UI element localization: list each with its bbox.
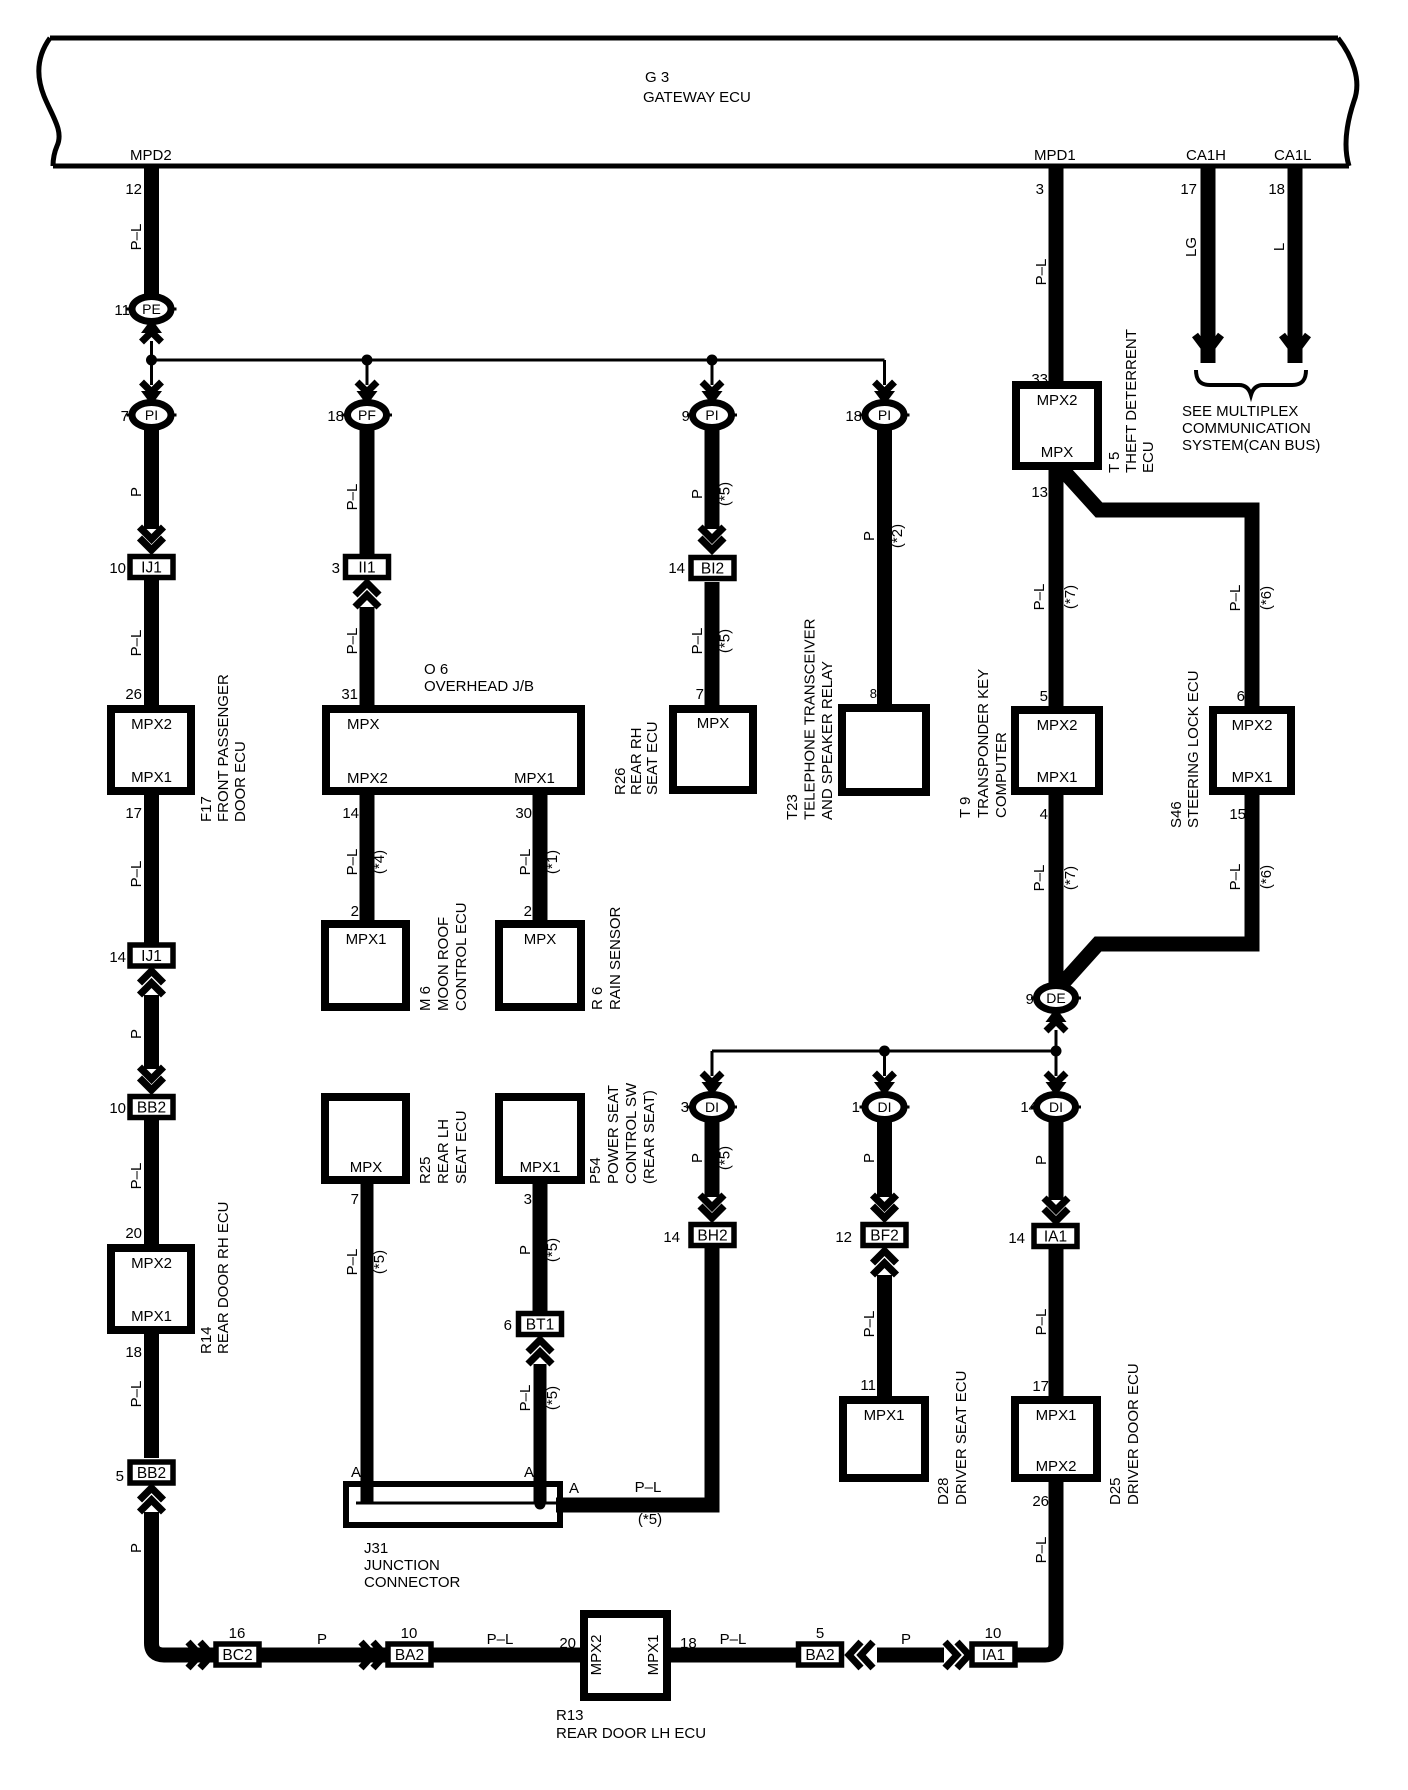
- svg-text:26: 26: [1032, 1493, 1049, 1510]
- svg-text:BC2: BC2: [222, 1647, 252, 1664]
- svg-text:T 9: T 9: [957, 797, 974, 818]
- svg-text:MPX1: MPX1: [1036, 1407, 1077, 1424]
- svg-text:PI: PI: [705, 407, 718, 423]
- wire BT1 inside J31: [534, 1484, 547, 1503]
- wire II1 to O6: [360, 607, 375, 705]
- svg-text:4: 4: [1040, 806, 1048, 823]
- svg-text:10: 10: [985, 1625, 1002, 1642]
- label D25 driver door ECU: [1107, 1363, 1142, 1505]
- arrow into PI 9: [702, 382, 723, 405]
- svg-text:S46: S46: [1168, 801, 1185, 828]
- wire BI2 to R26: [705, 582, 720, 705]
- wire PF to II1: [360, 427, 375, 555]
- svg-text:REAR LH: REAR LH: [435, 1119, 452, 1184]
- wire PI to IJ1: [144, 427, 159, 529]
- svg-text:12: 12: [835, 1229, 852, 1246]
- wire drop to PF: [366, 360, 369, 385]
- svg-text:12: 12: [125, 181, 142, 198]
- junction connector BC2: [216, 1644, 259, 1665]
- label T5 theft deterrent ECU: [1106, 329, 1157, 473]
- wire R25 to J31: [361, 1184, 374, 1503]
- junction connector BI2: [691, 558, 734, 579]
- svg-text:14: 14: [109, 949, 126, 966]
- label S46 steering lock ECU: [1168, 670, 1202, 828]
- svg-text:P–L: P–L: [635, 1479, 662, 1496]
- svg-text:MPX2: MPX2: [131, 1255, 172, 1272]
- svg-text:MPX: MPX: [524, 931, 557, 948]
- svg-text:16: 16: [229, 1625, 246, 1642]
- svg-text:BH2: BH2: [697, 1228, 727, 1245]
- svg-text:P–L: P–L: [861, 1311, 878, 1338]
- svg-text:A: A: [569, 1480, 579, 1497]
- label P54 power seat control sw: [587, 1082, 658, 1184]
- svg-text:JUNCTION: JUNCTION: [364, 1557, 440, 1574]
- label R6 rain sensor: [589, 906, 624, 1010]
- J31 internal bus: [356, 1502, 557, 1505]
- svg-text:MPX1: MPX1: [1037, 769, 1078, 786]
- junction connector BA2: [388, 1644, 431, 1665]
- svg-text:REAR DOOR LH ECU: REAR DOOR LH ECU: [556, 1725, 706, 1742]
- svg-text:(*5): (*5): [717, 1146, 734, 1170]
- arrow into PI 18: [874, 382, 895, 405]
- svg-text:18: 18: [327, 408, 344, 425]
- svg-text:P–L: P–L: [517, 849, 534, 876]
- node J31 junction: [535, 1499, 546, 1510]
- svg-text:30: 30: [515, 805, 532, 822]
- connector PI 18: [860, 403, 910, 428]
- arrow into DI 1: [874, 1073, 895, 1096]
- svg-text:14: 14: [663, 1229, 680, 1246]
- svg-text:P–L: P–L: [1227, 864, 1244, 891]
- svg-text:7: 7: [696, 686, 704, 703]
- svg-text:II1: II1: [358, 560, 375, 577]
- svg-text:(*5): (*5): [544, 1238, 561, 1262]
- svg-text:P–L: P–L: [344, 849, 361, 876]
- svg-text:REAR RH: REAR RH: [628, 727, 645, 795]
- arrow into IJ1: [140, 527, 164, 550]
- svg-text:ECU: ECU: [1140, 441, 1157, 473]
- svg-text:SEAT ECU: SEAT ECU: [644, 721, 661, 795]
- wire BA2 to R13: [433, 1648, 584, 1663]
- svg-text:P–L: P–L: [128, 630, 145, 657]
- svg-text:FRONT PASSENGER: FRONT PASSENGER: [215, 674, 232, 822]
- svg-text:18: 18: [845, 408, 862, 425]
- wire BF2 to D28: [877, 1275, 892, 1396]
- svg-text:P–L: P–L: [1033, 1537, 1050, 1564]
- connector DI 14: [1031, 1095, 1081, 1120]
- svg-text:6: 6: [1237, 688, 1245, 705]
- svg-text:20: 20: [125, 1225, 142, 1242]
- wire drop to PI 9: [711, 360, 714, 385]
- wire drop to PI 7: [150, 360, 153, 385]
- connector DI 1: [860, 1095, 910, 1120]
- arrow into PF: [357, 382, 378, 405]
- svg-text:BA2: BA2: [805, 1647, 834, 1664]
- arrow up into BF2: [873, 1251, 897, 1275]
- connector DE: [1031, 986, 1081, 1011]
- junction connector BA2 right: [799, 1644, 842, 1665]
- wire drop to DI 1: [883, 1051, 886, 1076]
- junction connector II1: [346, 557, 389, 578]
- svg-text:COMPUTER: COMPUTER: [993, 732, 1010, 818]
- svg-text:CONTROL ECU: CONTROL ECU: [453, 902, 470, 1011]
- connector PI 9: [687, 403, 737, 428]
- wire IA1 to corner: [1016, 1648, 1045, 1663]
- svg-text:LG: LG: [1183, 237, 1200, 257]
- svg-text:P: P: [689, 489, 706, 499]
- svg-text:RAIN SENSOR: RAIN SENSOR: [607, 906, 624, 1010]
- svg-text:P: P: [128, 1029, 145, 1039]
- svg-text:A: A: [524, 1464, 534, 1481]
- svg-text:(*5): (*5): [638, 1511, 662, 1528]
- svg-text:7: 7: [351, 1191, 359, 1208]
- svg-text:P54: P54: [587, 1157, 604, 1184]
- svg-text:CONTROL SW: CONTROL SW: [623, 1082, 640, 1184]
- svg-text:IJ1: IJ1: [141, 948, 162, 965]
- svg-text:P–L: P–L: [720, 1631, 747, 1648]
- arrow into BI2: [700, 527, 724, 550]
- svg-text:(*4): (*4): [371, 850, 388, 874]
- svg-text:IJ1: IJ1: [141, 560, 162, 577]
- svg-text:(*5): (*5): [544, 1386, 561, 1410]
- rear RH seat ECU R26: [673, 709, 753, 790]
- svg-text:P–L: P–L: [1227, 585, 1244, 612]
- svg-text:P–L: P–L: [1033, 259, 1050, 286]
- svg-text:P–L: P–L: [1031, 584, 1048, 611]
- wire DI to BH2: [705, 1119, 720, 1197]
- junction connector BH2: [691, 1225, 734, 1246]
- svg-text:MPD2: MPD2: [130, 147, 172, 164]
- overhead J/B O6: [326, 709, 581, 791]
- svg-text:MPX1: MPX1: [520, 1159, 561, 1176]
- svg-text:P: P: [128, 487, 145, 497]
- svg-text:2: 2: [524, 903, 532, 920]
- svg-text:MPX2: MPX2: [1232, 717, 1273, 734]
- svg-text:POWER SEAT: POWER SEAT: [605, 1085, 622, 1184]
- svg-text:DE: DE: [1046, 990, 1065, 1006]
- svg-text:P–L: P–L: [689, 628, 706, 655]
- wire PI to BI2: [705, 427, 720, 529]
- wire F17 to IJ1: [144, 795, 159, 943]
- wire O6 to M6: [360, 795, 375, 920]
- svg-text:AND SPEAKER RELAY: AND SPEAKER RELAY: [819, 661, 836, 820]
- chevrons into BA2 right: [849, 1642, 873, 1668]
- svg-text:26: 26: [125, 686, 142, 703]
- moon roof control ECU M6: [325, 924, 406, 1007]
- svg-text:O 6: O 6: [424, 661, 448, 678]
- svg-text:P–L: P–L: [1033, 1309, 1050, 1336]
- svg-text:R14: R14: [198, 1326, 215, 1354]
- svg-text:L: L: [1271, 243, 1288, 251]
- svg-text:T23: T23: [784, 794, 801, 820]
- svg-text:SEAT ECU: SEAT ECU: [453, 1110, 470, 1184]
- arrow into DI 14: [1046, 1073, 1067, 1096]
- svg-text:(*5): (*5): [371, 1250, 388, 1274]
- svg-text:DI: DI: [878, 1099, 892, 1115]
- svg-text:R 6: R 6: [589, 987, 606, 1010]
- svg-text:DRIVER SEAT ECU: DRIVER SEAT ECU: [953, 1371, 970, 1505]
- svg-text:(*6): (*6): [1258, 865, 1275, 889]
- svg-text:DOOR ECU: DOOR ECU: [232, 741, 249, 822]
- svg-text:P: P: [861, 531, 878, 541]
- svg-text:TELEPHONE TRANSCEIVER: TELEPHONE TRANSCEIVER: [802, 618, 819, 820]
- arrow up into II1: [355, 583, 379, 607]
- svg-text:CA1H: CA1H: [1186, 147, 1226, 164]
- wire D25 down to bottom bus: [1016, 1482, 1056, 1655]
- wire P54 to BT1: [533, 1184, 548, 1312]
- wire BB2 down to bottom bus: [152, 1512, 216, 1655]
- svg-text:P–L: P–L: [344, 484, 361, 511]
- svg-text:J31: J31: [364, 1540, 388, 1557]
- wire DI to BF2: [877, 1119, 892, 1197]
- svg-text:DI: DI: [1049, 1099, 1063, 1115]
- node junction PF: [362, 355, 373, 366]
- svg-text:10: 10: [401, 1625, 418, 1642]
- junction connector IJ1: [130, 557, 173, 578]
- svg-text:(*6): (*6): [1258, 586, 1275, 610]
- svg-text:3: 3: [524, 1191, 532, 1208]
- arrow up into PE: [141, 319, 162, 342]
- svg-text:11: 11: [860, 1377, 876, 1394]
- wire IJ1 to F17: [144, 580, 159, 705]
- svg-text:P–L: P–L: [344, 1249, 361, 1276]
- label T23 telephone transceiver: [784, 618, 836, 820]
- svg-text:(*5): (*5): [717, 629, 734, 653]
- svg-text:18: 18: [125, 1344, 142, 1361]
- arrow end CA1H: [1195, 335, 1221, 351]
- wire drop to PI 18: [883, 360, 886, 385]
- svg-text:GATEWAY ECU: GATEWAY ECU: [643, 89, 751, 106]
- svg-text:17: 17: [1032, 1378, 1049, 1395]
- svg-text:6: 6: [504, 1317, 512, 1334]
- label R14 rear door RH ECU: [198, 1201, 232, 1354]
- svg-text:BT1: BT1: [526, 1317, 554, 1334]
- wire branch S46 to DE: [1062, 795, 1252, 984]
- svg-text:MPX: MPX: [697, 715, 730, 732]
- power seat control switch P54: [499, 1097, 581, 1180]
- wire MPD2 to PE: [144, 167, 159, 300]
- svg-text:14: 14: [668, 560, 685, 577]
- svg-text:(*7): (*7): [1062, 585, 1079, 609]
- chevrons into BC2: [188, 1642, 212, 1668]
- svg-text:(*5): (*5): [717, 482, 734, 506]
- svg-text:DRIVER DOOR ECU: DRIVER DOOR ECU: [1125, 1363, 1142, 1505]
- svg-text:13: 13: [1031, 484, 1048, 501]
- svg-text:P–L: P–L: [487, 1631, 514, 1648]
- node junction DI mid: [879, 1046, 890, 1057]
- wire BC2 to BA2: [261, 1648, 386, 1663]
- label D28 driver seat ECU: [935, 1371, 970, 1505]
- arrow end CA1L: [1282, 335, 1308, 351]
- wire T5 to DE: [1049, 470, 1064, 990]
- svg-text:P: P: [689, 1153, 706, 1163]
- svg-text:P–L: P–L: [1031, 865, 1048, 892]
- wire J31 output to BH2 riser: [556, 1248, 712, 1505]
- svg-text:PI: PI: [145, 407, 158, 423]
- svg-text:R26: R26: [612, 767, 629, 795]
- svg-text:DI: DI: [705, 1099, 719, 1115]
- svg-text:MPX2: MPX2: [131, 716, 172, 733]
- bus line 1: [152, 359, 885, 362]
- svg-text:P: P: [517, 1245, 534, 1255]
- svg-text:D25: D25: [1107, 1477, 1124, 1505]
- svg-text:(*7): (*7): [1062, 866, 1079, 890]
- svg-text:3: 3: [1036, 181, 1044, 198]
- svg-text:11: 11: [114, 302, 130, 319]
- wire BT1 to J31: [534, 1364, 547, 1503]
- gateway ECU G3 outline: [39, 38, 1357, 166]
- svg-text:P–L: P–L: [128, 1381, 145, 1408]
- svg-text:20: 20: [559, 1635, 576, 1652]
- svg-text:COMMUNICATION: COMMUNICATION: [1182, 420, 1311, 437]
- svg-text:MPX1: MPX1: [131, 1308, 172, 1325]
- transponder key computer T9: [1015, 710, 1099, 791]
- svg-text:STEERING LOCK ECU: STEERING LOCK ECU: [1185, 670, 1202, 828]
- svg-text:MPX2: MPX2: [1036, 1458, 1077, 1475]
- arrow up into IJ1 lower: [140, 971, 164, 995]
- junction connector BF2: [863, 1225, 906, 1246]
- svg-text:MPX2: MPX2: [1037, 717, 1078, 734]
- wire CA1L: [1288, 167, 1303, 363]
- wire O6 to R6: [533, 795, 548, 920]
- junction connector J31 box: [346, 1484, 560, 1525]
- wire R14 to BB2 lower: [144, 1334, 159, 1458]
- wire IA1 to D25: [1049, 1247, 1064, 1396]
- svg-text:SYSTEM(CAN BUS): SYSTEM(CAN BUS): [1182, 437, 1320, 454]
- svg-text:14: 14: [1008, 1230, 1025, 1247]
- connector PI 7: [127, 403, 177, 428]
- svg-text:15: 15: [1229, 806, 1246, 823]
- svg-text:D28: D28: [935, 1477, 952, 1505]
- svg-text:P–L: P–L: [344, 628, 361, 655]
- svg-text:PE: PE: [142, 301, 161, 317]
- arrow up into BT1: [528, 1340, 552, 1364]
- arrow into BH2: [700, 1195, 724, 1218]
- wire DI to IA1: [1049, 1119, 1064, 1200]
- theft deterrent ECU T5: [1016, 385, 1098, 466]
- svg-text:CONNECTOR: CONNECTOR: [364, 1574, 461, 1591]
- svg-text:1: 1: [852, 1099, 860, 1116]
- wire CA1H: [1201, 167, 1216, 363]
- svg-text:BB2: BB2: [137, 1465, 166, 1482]
- svg-text:CA1L: CA1L: [1274, 147, 1312, 164]
- arrow into IA1: [1044, 1198, 1068, 1221]
- svg-text:(*2): (*2): [889, 524, 906, 548]
- connector DI 3: [687, 1095, 737, 1120]
- svg-text:R13: R13: [556, 1707, 584, 1724]
- wire BB2 to R14: [144, 1120, 159, 1244]
- rain sensor R6: [499, 924, 581, 1007]
- brace to CAN bus note: [1196, 370, 1306, 395]
- svg-text:M 6: M 6: [417, 986, 434, 1011]
- svg-text:TRANSPONDER KEY: TRANSPONDER KEY: [975, 669, 992, 818]
- svg-text:SEE MULTIPLEX: SEE MULTIPLEX: [1182, 403, 1298, 420]
- node junction PE: [146, 355, 157, 366]
- svg-text:MPX2: MPX2: [588, 1635, 605, 1676]
- svg-text:P–L: P–L: [517, 1385, 534, 1412]
- svg-text:A: A: [351, 1464, 361, 1481]
- svg-text:3: 3: [332, 560, 340, 577]
- svg-text:P: P: [861, 1153, 878, 1163]
- connector PE: [127, 297, 177, 322]
- junction connector BB2: [130, 1097, 173, 1118]
- junction connector BB2 lower: [130, 1462, 173, 1483]
- arrow into BF2: [873, 1195, 897, 1218]
- chevrons into BA2: [361, 1642, 385, 1668]
- front passenger door ECU F17: [111, 709, 191, 791]
- svg-text:R25: R25: [417, 1156, 434, 1184]
- svg-text:2: 2: [351, 903, 359, 920]
- svg-text:F17: F17: [198, 796, 215, 822]
- steering lock ECU S46: [1213, 710, 1291, 791]
- node junction DI right: [1051, 1046, 1062, 1057]
- label M6 moon roof control ECU: [417, 902, 470, 1011]
- svg-text:(*1): (*1): [544, 850, 561, 874]
- rear door RH ECU R14: [111, 1248, 191, 1330]
- svg-text:17: 17: [125, 805, 142, 822]
- arrow up into DE: [1046, 1008, 1067, 1031]
- svg-text:BI2: BI2: [701, 561, 724, 578]
- svg-text:10: 10: [109, 1100, 126, 1117]
- rear door LH ECU R13: [584, 1614, 667, 1697]
- label R26 rear RH seat ECU: [612, 721, 661, 795]
- svg-text:IA1: IA1: [982, 1647, 1005, 1664]
- wire drop to DI 3: [711, 1051, 714, 1076]
- svg-text:BF2: BF2: [870, 1228, 898, 1245]
- svg-text:14: 14: [342, 805, 359, 822]
- svg-text:5: 5: [816, 1625, 824, 1642]
- rear LH seat ECU R25: [325, 1097, 406, 1180]
- chevrons into IA1 bottom: [945, 1642, 969, 1668]
- label R25 rear LH seat ECU: [417, 1110, 470, 1184]
- label T9 transponder key computer: [957, 669, 1010, 818]
- wire branch T5 to S46: [1060, 467, 1252, 706]
- svg-text:8: 8: [870, 686, 877, 701]
- svg-text:P–L: P–L: [128, 224, 145, 251]
- wire BA2 to IA1: [877, 1648, 944, 1663]
- wire PE to node: [150, 341, 153, 360]
- svg-text:BB2: BB2: [137, 1100, 166, 1117]
- connector PF: [342, 403, 392, 428]
- svg-text:MPX1: MPX1: [1232, 769, 1273, 786]
- svg-text:17: 17: [1180, 181, 1197, 198]
- svg-text:5: 5: [116, 1468, 124, 1485]
- svg-text:P: P: [317, 1631, 327, 1648]
- arrow up into BB2 lower: [140, 1488, 164, 1512]
- wire IJ1 to BB2: [144, 995, 159, 1069]
- svg-text:REAR DOOR RH ECU: REAR DOOR RH ECU: [215, 1201, 232, 1354]
- svg-text:P: P: [1033, 1155, 1050, 1165]
- svg-text:IA1: IA1: [1044, 1229, 1067, 1246]
- svg-text:PI: PI: [878, 407, 891, 423]
- svg-text:BA2: BA2: [395, 1647, 424, 1664]
- bus line 2: [712, 1050, 1056, 1053]
- driver seat ECU D28: [843, 1400, 925, 1478]
- svg-text:MPX1: MPX1: [645, 1635, 662, 1676]
- svg-text:P: P: [128, 1543, 145, 1553]
- svg-text:5: 5: [1040, 688, 1048, 705]
- svg-text:10: 10: [109, 560, 126, 577]
- svg-text:MPX1: MPX1: [131, 769, 172, 786]
- junction connector IJ1 lower: [130, 945, 173, 966]
- svg-text:31: 31: [341, 686, 358, 703]
- svg-text:MPX1: MPX1: [864, 1407, 905, 1424]
- arrow into BB2: [140, 1067, 164, 1090]
- svg-text:T 5: T 5: [1106, 452, 1123, 473]
- svg-text:(REAR SEAT): (REAR SEAT): [641, 1090, 658, 1184]
- svg-text:P–L: P–L: [128, 1163, 145, 1190]
- svg-text:MPD1: MPD1: [1034, 147, 1076, 164]
